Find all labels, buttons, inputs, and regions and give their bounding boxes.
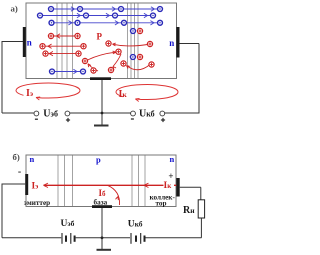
bottom wire left segment (fig b)	[2, 237, 61, 239]
emitter wire (fig a)	[2, 41, 23, 113]
svg-text:б): б)	[13, 152, 20, 162]
label Ukb (fig a)	[139, 109, 155, 120]
resistor Rn (fig b)	[198, 200, 204, 218]
svg-text:Rн: Rн	[183, 205, 195, 216]
svg-text:n: n	[170, 154, 175, 164]
battery Ukb (fig b)	[131, 233, 145, 244]
label collector line2 (fig b)	[155, 199, 166, 207]
label P base (fig a)	[97, 32, 103, 42]
base electrode bar (fig b)	[92, 205, 112, 208]
svg-text:Uэб: Uэб	[61, 219, 75, 229]
svg-text:Iк: Iк	[119, 89, 128, 100]
ground bar (fig b)	[97, 249, 112, 251]
label emitter (fig b)	[24, 199, 50, 207]
holes in base region (fig a)	[82, 41, 126, 73]
base wire (fig b)	[101, 208, 103, 249]
label Ueb (fig a)	[43, 109, 58, 120]
label collector line1 (fig b)	[150, 194, 176, 202]
current line Ie-Ik (fig b)	[44, 183, 177, 187]
svg-text:Р: Р	[97, 32, 103, 42]
svg-text:Iэ: Iэ	[26, 88, 33, 99]
svg-text:Uкб: Uкб	[139, 109, 155, 120]
base wire (fig a)	[101, 80, 103, 125]
terminal circle 1 Ueb (fig a)	[34, 111, 39, 116]
label baza (fig b)	[94, 198, 108, 206]
holes in collector region (fig a)	[147, 41, 154, 67]
hole diffusion arrow c5 (fig a)	[88, 64, 98, 71]
hole injection row 1 (fig a)	[48, 33, 80, 38]
emitter current loop Ie (fig a)	[16, 83, 80, 100]
emitter wire (fig b)	[2, 184, 25, 238]
bottom wire right segment (fig a)	[165, 112, 199, 114]
hole injection row 3 (fig a)	[43, 51, 81, 56]
collector electrode bar (fig a)	[176, 27, 179, 58]
figure a label	[11, 4, 18, 14]
label Ueb (fig b)	[61, 219, 75, 229]
bottom wire right segment (fig b)	[146, 237, 202, 239]
junction dot (fig a)	[101, 112, 104, 115]
label n collector (fig a)	[169, 38, 174, 48]
collector electrode bar (fig b)	[176, 178, 179, 197]
collector current loop Ik (fig a)	[116, 84, 178, 101]
electron-hole pair 1 at collector junction (fig a)	[131, 28, 143, 33]
label Ik (fig a)	[119, 89, 128, 100]
plus sign at collector (fig b)	[168, 171, 173, 181]
emitter electrode bar (fig b)	[25, 174, 28, 195]
svg-text:Uэб: Uэб	[43, 109, 58, 120]
base electrode bar (fig a)	[90, 77, 111, 80]
label n emitter (fig b)	[30, 154, 35, 164]
emitter junction depletion band (fig a)	[57, 4, 73, 79]
label Ie (fig a)	[26, 88, 33, 99]
svg-text:n: n	[30, 154, 35, 164]
hole diffusion arrow c3 (fig a)	[88, 51, 116, 60]
svg-text:а): а)	[11, 4, 18, 14]
svg-text:n: n	[169, 38, 174, 48]
svg-text:n: n	[27, 38, 32, 48]
label Ukb (fig b)	[128, 220, 143, 230]
emitter electrode bar (fig a)	[23, 27, 26, 57]
crystal box (fig a)	[26, 3, 177, 79]
collector wire (fig a)	[180, 44, 200, 114]
svg-text:-: -	[18, 167, 21, 178]
svg-text:Iк: Iк	[164, 181, 173, 191]
label Ie (fig b)	[32, 182, 39, 192]
hole diffusion arrow c4 (fig a)	[113, 54, 121, 70]
crystal box (fig b)	[26, 155, 176, 207]
svg-text:тор: тор	[155, 199, 166, 207]
plus sign Ueb (fig a)	[66, 118, 70, 122]
bottom wire middle segment (fig b)	[76, 237, 130, 239]
svg-text:Uкб: Uкб	[128, 220, 143, 230]
hole injection row 2 (fig a)	[40, 44, 86, 49]
minus sign Ukb (fig a)	[131, 118, 134, 120]
collector junction band (fig b)	[132, 156, 145, 207]
label Ib (fig b)	[99, 188, 107, 198]
electron-hole pair 2 at collector junction (fig a)	[130, 54, 142, 59]
terminal circle 1 Ukb (fig a)	[131, 111, 136, 116]
hole diffusion arrow c1 (fig a)	[113, 43, 148, 46]
label Ik (fig b)	[164, 181, 175, 192]
emitter junction band (fig b)	[58, 156, 73, 207]
bottom wire left segment (fig a)	[2, 112, 34, 114]
hole diffusion arrow c2 (fig a)	[127, 65, 151, 70]
collector junction depletion band (fig a)	[128, 4, 139, 79]
base current arrow Ib (fig b)	[108, 185, 120, 205]
terminal circle 2 Ukb (fig a)	[160, 111, 165, 116]
terminal circle 2 Ueb (fig a)	[65, 111, 70, 116]
electron flow row 1 (fig a)	[49, 7, 163, 12]
battery Ueb (fig b)	[62, 233, 75, 244]
bottom wire middle segment (fig a)	[70, 112, 131, 114]
junction dot (fig b)	[101, 236, 104, 239]
svg-text:база: база	[94, 198, 108, 206]
svg-text:р: р	[96, 155, 101, 165]
collector wire (fig b)	[180, 187, 201, 200]
ground bar (fig a)	[94, 125, 109, 127]
plus sign Ukb (fig a)	[161, 118, 165, 122]
electron flow row 4 (fig a)	[50, 69, 86, 74]
figure b label	[13, 152, 20, 162]
svg-text:Iэ: Iэ	[32, 182, 39, 192]
minus sign Ueb (fig a)	[35, 118, 38, 120]
electron flow row 3 (fig a)	[49, 20, 162, 25]
resistor bottom wire (fig b)	[200, 218, 202, 238]
label p base (fig b)	[96, 155, 101, 165]
electron flow row 2 (fig a)	[38, 13, 156, 18]
label n emitter (fig a)	[27, 38, 32, 48]
svg-text:эмиттер: эмиттер	[24, 199, 50, 207]
label Rn (fig b)	[183, 205, 195, 216]
label n collector (fig b)	[170, 154, 175, 164]
svg-text:Iб: Iб	[99, 188, 107, 198]
minus sign at emitter (fig b)	[18, 167, 21, 178]
svg-text:+: +	[168, 171, 173, 181]
